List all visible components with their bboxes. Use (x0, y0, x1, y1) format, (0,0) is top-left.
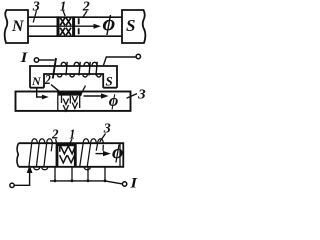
svg-text:3: 3 (103, 122, 111, 137)
svg-text:S: S (106, 74, 113, 89)
svg-text:I: I (129, 176, 138, 192)
svg-text:2: 2 (51, 128, 58, 143)
svg-text:N: N (31, 74, 42, 88)
svg-text:2: 2 (82, 0, 90, 14)
svg-text:2: 2 (44, 73, 51, 88)
svg-text:I: I (20, 50, 29, 66)
svg-text:ϕ: ϕ (109, 91, 119, 110)
svg-text:ϕ: ϕ (112, 142, 123, 163)
svg-text:1: 1 (60, 0, 67, 14)
svg-text:3: 3 (32, 0, 40, 14)
svg-text:N: N (11, 18, 25, 35)
svg-text:1: 1 (69, 128, 75, 143)
svg-text:S: S (126, 16, 135, 35)
svg-text:3: 3 (137, 88, 146, 103)
svg-text:ϕ: ϕ (103, 11, 116, 36)
